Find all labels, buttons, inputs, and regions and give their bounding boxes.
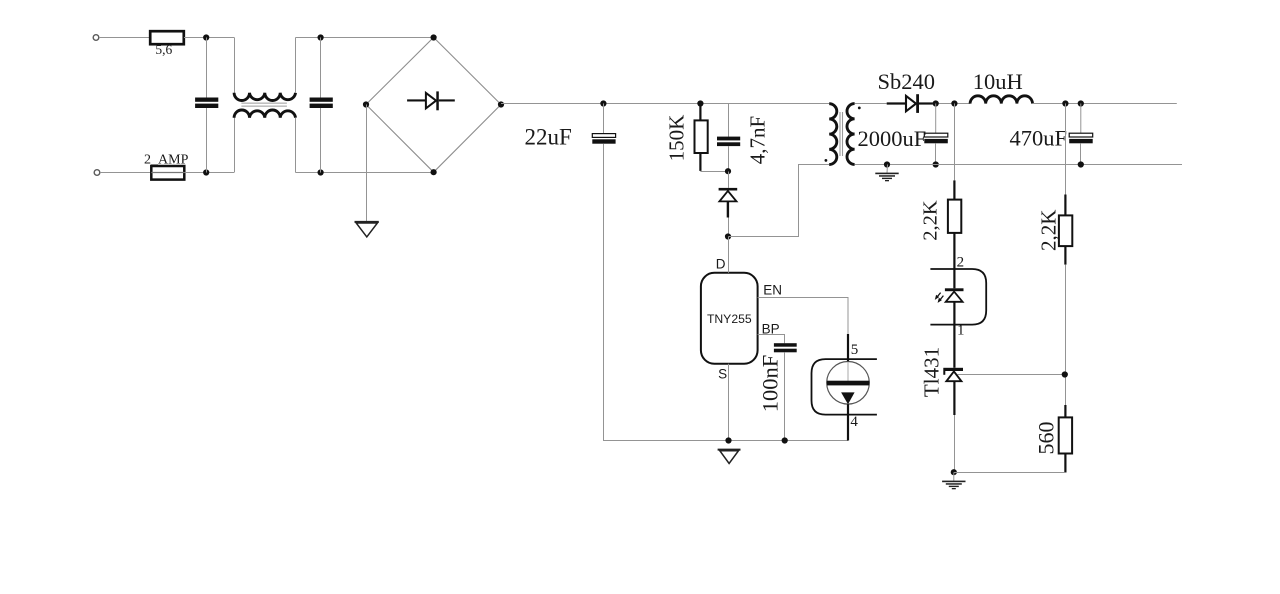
- node feedback divider top junction dot: [1062, 100, 1068, 106]
- earth ground symbol (secondary): [875, 165, 898, 182]
- diode D2 (clamp blocking diode): [719, 188, 738, 218]
- wire secondary top to D3: [855, 103, 887, 105]
- svg-text:470uF: 470uF: [1009, 126, 1067, 151]
- svg-text:150K: 150K: [665, 115, 689, 162]
- capacitor C1 (X-cap): [195, 98, 218, 109]
- optocoupler collector bar: [827, 381, 870, 386]
- inductor L1 common-mode choke top winding: [234, 93, 295, 101]
- bridge node top dot: [431, 34, 437, 40]
- wire C2 bottom stub: [320, 108, 322, 173]
- ground symbol (primary ground): [718, 450, 741, 464]
- wire 22uF top stub: [603, 104, 605, 135]
- node clamp junction dot: [725, 168, 731, 174]
- ground symbol (bridge negative): [355, 222, 379, 237]
- wire pin S down to ground rail: [728, 364, 730, 441]
- node S-ground junction dot: [725, 437, 731, 443]
- wire 10uH to output+: [1033, 103, 1177, 105]
- transformer T1 secondary winding: [847, 104, 855, 165]
- wire J1 to R1: [99, 37, 150, 39]
- pin 5 lead: [847, 334, 849, 362]
- wire choke bottom-right down to bottom rail: [295, 118, 297, 173]
- op-amp U1 TNY255 IC body: [701, 273, 758, 364]
- svg-text:5,6: 5,6: [155, 42, 172, 57]
- wire primary ground rail: [729, 440, 849, 442]
- wire LED cathode to Tl431: [953, 302, 955, 368]
- capacitor C3 22uF (electrolytic): [525, 125, 616, 150]
- svg-text:2: 2: [957, 254, 965, 270]
- wire divider mid: [1065, 265, 1067, 405]
- svg-text:2,2K: 2,2K: [1037, 210, 1061, 251]
- terminal J2 (line input bottom): [94, 170, 100, 176]
- node 2000uF bottom junction dot: [933, 161, 939, 167]
- node B junction dot: [203, 169, 209, 175]
- node secondary ground junction dot: [884, 161, 890, 167]
- wire C2 top stub: [320, 38, 322, 99]
- resistor R5 560 (divider lower): [1034, 405, 1073, 473]
- diode D1 inside bridge: [407, 91, 455, 110]
- wire Tl431 ref to divider node: [958, 374, 1065, 376]
- transformer T1 core lines: [839, 112, 841, 156]
- node LED-branch ground junction dot: [951, 469, 957, 475]
- wire F1 to node B: [184, 172, 234, 174]
- zener U3 Tl431: [920, 347, 964, 397]
- svg-text:4,7nF: 4,7nF: [746, 116, 770, 164]
- LED emission arrow 1: [935, 293, 941, 300]
- svg-text:Sb240: Sb240: [878, 69, 936, 94]
- inductor L1 core lines: [241, 102, 287, 104]
- bridge rectifier BR1 diamond: [366, 37, 501, 172]
- wire pin EN to optocoupler pin5: [758, 298, 848, 335]
- wire 150K bottom to clamp node: [700, 171, 728, 173]
- bridge node bottom dot: [431, 169, 437, 175]
- svg-text:10uH: 10uH: [973, 69, 1023, 94]
- pin 4 lead down to ground rail: [847, 404, 849, 440]
- resistor R2 150K: [665, 104, 708, 171]
- wire bridge left vertex down to ground: [366, 105, 368, 222]
- svg-text:D: D: [716, 257, 726, 272]
- svg-text:EN: EN: [763, 283, 782, 298]
- transformer T1 primary winding: [829, 104, 837, 165]
- node 22uF top junction dot: [600, 100, 606, 106]
- node divider junction dot: [1062, 371, 1068, 377]
- optocoupler U2 LED-side frame: [930, 269, 986, 325]
- wire 2000uF bottom stub: [935, 143, 937, 164]
- svg-text:22uF: 22uF: [525, 125, 572, 150]
- capacitor C7 470uF (electrolytic): [1009, 126, 1092, 151]
- svg-text:100nF: 100nF: [758, 355, 783, 413]
- wire secondary bottom rail: [855, 164, 1182, 166]
- wire Tl431 anode down: [953, 381, 955, 415]
- transformer phase dot primary: [825, 159, 828, 162]
- bridge node left dot: [363, 101, 369, 107]
- wire feedback LED branch from output+: [954, 104, 956, 181]
- node 470uF top junction dot: [1078, 100, 1084, 106]
- wire C5 bottom to ground rail: [784, 352, 786, 440]
- node feedback-top junction dot: [951, 100, 957, 106]
- optocoupler U2 transistor circle: [827, 362, 870, 405]
- wire corner to choke top-left: [234, 38, 236, 94]
- wire inside circle: [847, 362, 849, 381]
- wire D2 anode to drain node: [728, 218, 730, 237]
- bridge node right dot: [498, 101, 504, 107]
- wire 4.7nF bottom stub: [728, 146, 730, 171]
- wire clamp node to diode D2: [728, 172, 730, 188]
- resistor R1 5,6: [150, 31, 184, 57]
- wire pin D: [728, 237, 730, 273]
- resistor R3 2,2K (LED series): [920, 180, 962, 288]
- wire 470uF bottom stub: [1080, 143, 1082, 164]
- wire feedback divider from output+: [1065, 104, 1067, 195]
- capacitor C2 (X-cap): [310, 98, 333, 109]
- node C5-ground junction dot: [782, 437, 788, 443]
- wire drain node to primary bottom: [729, 165, 830, 237]
- svg-text:S: S: [718, 367, 727, 382]
- wire 560 bottom to ground node: [954, 472, 1066, 474]
- svg-text:2,2K: 2,2K: [920, 200, 942, 241]
- fuse F1 2_AMP: [144, 152, 189, 179]
- wire top rail to bridge top: [296, 37, 434, 39]
- svg-text:4: 4: [850, 414, 858, 430]
- svg-text:Tl431: Tl431: [920, 347, 944, 397]
- capacitor C6 2000uF (electrolytic): [858, 126, 948, 151]
- optocoupler LED D4: [945, 288, 964, 302]
- capacitor C4 4,7nF: [717, 116, 770, 164]
- wire node B up to C1: [206, 108, 208, 173]
- wire D3 cathode to 10uH: [933, 103, 970, 105]
- node C2-bottom junction dot: [318, 169, 324, 175]
- svg-text:TNY255: TNY255: [707, 312, 752, 326]
- node 150K top junction dot: [697, 100, 703, 106]
- svg-text:560: 560: [1034, 422, 1059, 455]
- LED emission arrow 2: [938, 296, 944, 303]
- wire choke top-right up to top rail: [295, 38, 297, 93]
- resistor R4 2,2K (divider upper): [1037, 195, 1073, 265]
- wire 470uF top stub: [1080, 104, 1082, 134]
- node A junction dot: [203, 34, 209, 40]
- svg-text:5: 5: [851, 342, 859, 358]
- svg-text:2000uF: 2000uF: [858, 126, 927, 151]
- wire node A down to C1: [206, 38, 208, 99]
- optocoupler emitter triangle: [841, 392, 855, 404]
- wire bottom rail to bridge bottom: [296, 172, 434, 174]
- inductor L1 common-mode choke bottom winding: [234, 110, 295, 118]
- wire DC+ rail bridge to transformer primary top: [501, 103, 829, 105]
- inductor L2 10uH: [970, 69, 1032, 103]
- earth ground symbol (feedback): [942, 473, 965, 490]
- node 2000uF top junction dot: [933, 100, 939, 106]
- wire 22uF bottom down and right to primary ground rail: [604, 144, 729, 441]
- optocoupler U2 transistor-side frame: [812, 359, 877, 415]
- diode D3 Sb240: [878, 69, 936, 113]
- wire J2 to fuse F1: [100, 172, 151, 174]
- node drain junction dot: [725, 233, 731, 239]
- wire 4.7nF top stub from rail: [728, 104, 730, 137]
- wire pin BP to C5: [758, 335, 785, 344]
- capacitor C5 100nF: [758, 343, 797, 412]
- node 470uF bottom junction dot: [1078, 161, 1084, 167]
- svg-text:2_AMP: 2_AMP: [144, 152, 189, 167]
- transformer phase dot secondary: [858, 107, 861, 110]
- terminal J1 (line input top): [93, 35, 99, 41]
- wire 2000uF top stub: [935, 104, 937, 134]
- svg-text:1: 1: [957, 322, 965, 338]
- node C2-top junction dot: [318, 34, 324, 40]
- wire R1 to node A: [184, 37, 234, 39]
- wire corner to choke bottom-left: [234, 118, 236, 173]
